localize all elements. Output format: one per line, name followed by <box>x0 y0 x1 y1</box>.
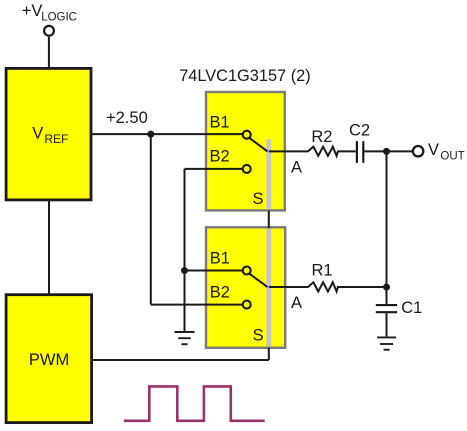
svg-text:C2: C2 <box>349 122 370 140</box>
svg-text:C1: C1 <box>401 299 422 317</box>
svg-text:R1: R1 <box>312 262 333 280</box>
svg-text:74LVC1G3157 (2): 74LVC1G3157 (2) <box>179 67 311 85</box>
svg-text:OUT: OUT <box>440 150 464 162</box>
svg-text:+V: +V <box>22 2 43 20</box>
svg-text:A: A <box>291 294 302 312</box>
svg-text:A: A <box>291 159 302 177</box>
svg-text:S: S <box>253 327 264 345</box>
svg-text:B1: B1 <box>210 249 230 267</box>
svg-text:+2.50: +2.50 <box>106 109 148 127</box>
svg-text:LOGIC: LOGIC <box>41 12 77 24</box>
svg-text:PWM: PWM <box>29 351 69 369</box>
svg-text:S: S <box>253 190 264 208</box>
svg-text:B1: B1 <box>210 114 230 132</box>
svg-text:B2: B2 <box>210 284 230 302</box>
svg-text:R2: R2 <box>311 128 332 146</box>
svg-text:REF: REF <box>44 132 68 146</box>
svg-text:V: V <box>32 125 43 143</box>
svg-text:V: V <box>428 141 439 159</box>
svg-text:B2: B2 <box>210 148 230 166</box>
